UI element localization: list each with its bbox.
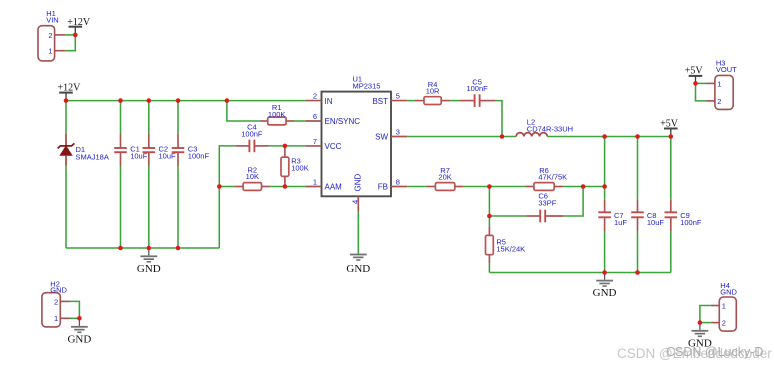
svg-text:IN: IN: [325, 97, 333, 106]
wire H2 pin2 down to node: [70, 301, 79, 318]
svg-text:GND: GND: [720, 288, 737, 297]
capacitor C5 100nF: [460, 77, 496, 107]
svg-text:100nF: 100nF: [241, 129, 263, 138]
wire C6 right up to R6 right: [563, 187, 583, 217]
svg-text:20K: 20K: [438, 173, 451, 182]
svg-text:MP2315: MP2315: [353, 81, 381, 90]
power flag +12V (main rail): [58, 83, 82, 101]
junction H2 node: [77, 316, 82, 321]
junction C4/R3: [283, 144, 288, 149]
svg-text:SMAJ18A: SMAJ18A: [76, 153, 109, 162]
svg-text:SW: SW: [375, 133, 388, 142]
wire FB node to R6: [489, 186, 525, 188]
wire BST to R4: [407, 100, 415, 102]
wire C4 to VCC: [269, 145, 306, 147]
wire C1 top: [120, 101, 122, 134]
capacitor C7 1uF: [598, 200, 627, 232]
wire R5 to bottom rail: [488, 264, 490, 273]
svg-text:1uF: 1uF: [614, 218, 627, 227]
junction rail at D1: [64, 98, 69, 103]
junction bottom rail at C1: [118, 246, 123, 251]
junction H3 node: [693, 81, 698, 86]
svg-text:10K: 10K: [246, 172, 259, 181]
svg-text:+12V: +12V: [58, 83, 82, 94]
svg-text:AAM: AAM: [325, 183, 343, 192]
wire D1 top: [65, 101, 67, 134]
junction rail at C1: [118, 98, 123, 103]
wire C7 column top: [604, 137, 606, 200]
svg-text:1: 1: [717, 79, 721, 88]
svg-text:+5V: +5V: [660, 118, 679, 129]
svg-text:2: 2: [48, 31, 52, 40]
svg-text:1: 1: [54, 314, 58, 323]
svg-text:1: 1: [313, 178, 317, 187]
ground symbol left: [137, 248, 161, 275]
connector H3: [715, 59, 737, 110]
svg-text:GND: GND: [50, 286, 67, 295]
svg-text:100K: 100K: [291, 164, 309, 173]
ground symbol H4: [688, 323, 712, 350]
wire C7 bottom: [604, 232, 606, 273]
wire H3 pin1 to +5V node: [696, 82, 707, 84]
connector H1: [38, 9, 59, 61]
ground symbol H2: [67, 318, 91, 345]
U1 pin 6 EN/SYNC: [305, 112, 360, 126]
wire C1 bottom: [120, 166, 122, 248]
H1 pin 1: [48, 47, 65, 56]
svg-text:2: 2: [722, 319, 726, 328]
ground symbol right: [593, 273, 617, 300]
U1 pin 4 GND: [351, 174, 363, 212]
inductor L2 CD74R-33UH: [516, 118, 573, 137]
svg-text:CD74R-33UH: CD74R-33UH: [527, 124, 573, 133]
wire C2 bottom: [148, 166, 150, 248]
resistor R4 10R: [415, 80, 450, 105]
svg-text:47K/75K: 47K/75K: [538, 173, 567, 182]
H1 pin 2: [48, 31, 65, 40]
svg-text:VCC: VCC: [325, 142, 342, 151]
capacitor C8 10uF: [631, 200, 664, 232]
wire R1 to pin6: [294, 120, 305, 122]
wire C8 bottom: [637, 232, 639, 273]
svg-text:GND: GND: [67, 333, 91, 345]
resistor R2 10K: [234, 165, 270, 190]
svg-text:GND: GND: [354, 174, 363, 192]
svg-text:33PF: 33PF: [538, 199, 556, 208]
resistor R7 20K: [427, 166, 464, 191]
junction bottom rail at C3: [176, 246, 181, 251]
svg-text:1: 1: [722, 301, 726, 310]
connector H2: [42, 279, 68, 327]
resistor R6 47K/75K: [525, 166, 567, 191]
capacitor C3 100nF: [172, 134, 210, 166]
H4 pin 2: [711, 319, 726, 328]
junction rail at C8: [635, 134, 640, 139]
wire R2 left branch: [219, 186, 234, 188]
U1 pin 8 FB: [378, 178, 407, 192]
svg-text:VIN: VIN: [46, 16, 59, 25]
capacitor C1 10uF: [114, 134, 148, 166]
svg-text:1: 1: [48, 47, 52, 56]
wire C4 left corner: [219, 146, 235, 248]
junction R2/R3 at AAM: [283, 184, 288, 189]
connector H4: [719, 281, 737, 331]
resistor R5 15K/24K: [486, 226, 526, 263]
wire R1 branch down: [227, 101, 260, 121]
capacitor C9 100nF: [665, 200, 702, 232]
svg-text:BST: BST: [372, 97, 388, 106]
svg-text:7: 7: [313, 137, 317, 146]
svg-text:2: 2: [717, 97, 721, 106]
capacitor C6 33PF: [526, 192, 563, 223]
H3 pin 1: [707, 79, 722, 88]
svg-text:100nF: 100nF: [188, 152, 210, 161]
svg-text:6: 6: [313, 112, 317, 121]
junction rail at C3: [176, 98, 181, 103]
svg-text:5: 5: [396, 92, 400, 101]
junction bottom rail at C7: [602, 270, 607, 275]
H4 pin 1: [711, 301, 726, 310]
wire R7 to FB node: [463, 186, 489, 188]
U1 pin 2 IN: [305, 92, 332, 106]
junction bottom rail at C8: [635, 270, 640, 275]
wire C2 top: [148, 101, 150, 134]
junction C6/R5: [487, 214, 492, 219]
wire C3 bottom: [177, 166, 179, 248]
wire +12V rail: [66, 100, 305, 102]
wire to C6: [489, 215, 526, 217]
U1 pin 7 VCC: [305, 137, 341, 151]
resistor R1 100K: [260, 103, 294, 125]
junction rail at C2: [147, 98, 152, 103]
wire R2 to AAM: [270, 186, 305, 188]
capacitor C4 100nF: [235, 123, 268, 153]
H2 pin 2: [54, 297, 70, 306]
junction H1 node: [73, 33, 78, 38]
svg-text:+5V: +5V: [685, 66, 704, 77]
ground symbol U1: [346, 254, 370, 275]
wire bottom-left GND rail: [66, 247, 219, 249]
wire D1 bottom: [65, 166, 67, 248]
wire C3 top: [177, 101, 179, 134]
U1 pin 3 SW: [375, 128, 407, 142]
wire U1 GND down: [357, 212, 359, 254]
junction rail at R1 branch: [225, 98, 230, 103]
U1 pin 1 AAM: [305, 178, 342, 192]
svg-text:10uF: 10uF: [647, 218, 665, 227]
svg-text:GND: GND: [346, 263, 370, 275]
svg-text:VOUT: VOUT: [716, 65, 737, 74]
power flag +5V (main): [660, 118, 679, 136]
wire bottom-right GND rail: [489, 272, 670, 274]
wire H4 pin1 down to node: [700, 306, 711, 323]
svg-text:3: 3: [396, 128, 400, 137]
wire R4 to C5: [450, 100, 459, 102]
wire H1 pin2 to +12V node: [65, 34, 75, 36]
diode D1 SMAJ18A: [58, 134, 109, 166]
wire SW to L2: [407, 136, 516, 138]
wire C9 column top: [670, 137, 672, 200]
svg-text:100nF: 100nF: [466, 84, 488, 93]
svg-text:100K: 100K: [268, 110, 286, 119]
wire H3 pin2 to node: [696, 83, 707, 101]
wire FB to R7: [407, 186, 426, 188]
wire C8 column top: [637, 137, 639, 200]
capacitor C2 10uF: [143, 134, 177, 166]
wire H1 pin1 up to +12V node: [65, 35, 75, 51]
resistor R3 100K: [281, 146, 309, 187]
wire R6 to VOUT column: [563, 186, 605, 188]
svg-text:FB: FB: [378, 183, 388, 192]
junction rail at +5V flag: [669, 134, 674, 139]
svg-text:10R: 10R: [426, 87, 440, 96]
svg-text:4: 4: [351, 200, 360, 204]
junction H4 node: [698, 320, 703, 325]
wire H4 pin2 to node: [700, 322, 711, 324]
watermark: [617, 345, 772, 361]
svg-text:2: 2: [313, 92, 317, 101]
wire L2 to +5V rail: [547, 136, 671, 138]
power flag +5V (H3): [685, 66, 704, 84]
junction R6/C6 right: [581, 184, 586, 189]
svg-text:GND: GND: [593, 287, 617, 299]
junction bottom rail at C2: [147, 246, 152, 251]
H3 pin 2: [707, 97, 722, 106]
svg-text:+12V: +12V: [67, 17, 91, 28]
svg-text:15K/24K: 15K/24K: [496, 244, 525, 253]
wire H2 pin1 to node: [70, 317, 79, 319]
junction R6 at C7 column: [602, 184, 607, 189]
svg-text:EN/SYNC: EN/SYNC: [325, 117, 361, 126]
junction FB node: [487, 184, 492, 189]
H2 pin 1: [54, 314, 70, 323]
wire C5 down to SW node: [496, 101, 502, 137]
svg-text:100nF: 100nF: [680, 218, 702, 227]
wire C6 node down to R5: [488, 216, 490, 226]
svg-text:GND: GND: [137, 263, 161, 275]
svg-text:2: 2: [54, 297, 58, 306]
svg-text:8: 8: [396, 178, 400, 187]
wire C9 bottom: [670, 232, 672, 273]
wire FB node down to C6 row: [488, 187, 490, 217]
junction R2 branch on vertical: [217, 184, 222, 189]
junction SW/C5: [500, 134, 505, 139]
svg-text:CSDN @Lucky-D: CSDN @Lucky-D: [666, 345, 763, 359]
junction rail at C7: [602, 134, 607, 139]
power flag +12V (H1): [67, 17, 91, 35]
op-amp U1 MP2315 body: [322, 75, 392, 197]
U1 pin 5 BST: [372, 92, 407, 106]
